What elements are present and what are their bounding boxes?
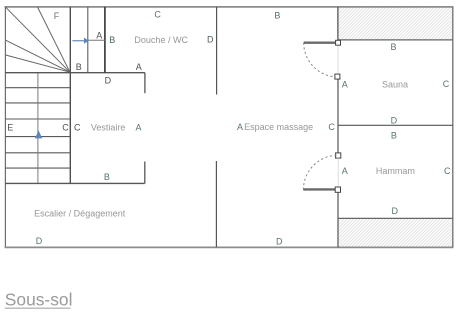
svg-text:C: C <box>74 123 81 133</box>
winder tread diagonal 1 <box>6 7 70 72</box>
svg-text:D: D <box>276 237 283 247</box>
svg-text:D: D <box>36 236 43 246</box>
Vestiaire wall stub <box>144 162 146 184</box>
corridor wall <box>87 7 89 73</box>
stair tread line 4 <box>5 136 70 138</box>
stair tread line 1 <box>5 87 70 89</box>
svg-text:D: D <box>391 206 398 216</box>
stair up arrow <box>35 131 42 139</box>
svg-text:C: C <box>328 122 335 132</box>
svg-text:D: D <box>105 75 112 85</box>
svg-text:B: B <box>274 11 280 21</box>
title underline <box>5 307 71 309</box>
stair tread line 3 <box>5 118 70 120</box>
svg-text:C: C <box>154 10 161 20</box>
svg-text:B: B <box>390 42 396 52</box>
sauna hammam divider wall <box>338 124 453 126</box>
wall under Douche (top tread) <box>5 72 145 74</box>
sauna door hinge post <box>336 40 341 45</box>
stair tread line 2 <box>5 102 70 104</box>
top hatched wall zone <box>338 8 453 40</box>
massage left wall top segment <box>216 7 218 95</box>
svg-text:Hammam: Hammam <box>376 166 415 176</box>
bottom hatched wall zone <box>338 219 453 247</box>
stair right wall <box>69 7 71 184</box>
svg-text:E: E <box>7 123 13 133</box>
svg-text:A: A <box>342 166 348 176</box>
svg-text:C: C <box>443 79 450 89</box>
svg-text:B: B <box>109 35 115 45</box>
plan right border <box>452 7 454 247</box>
sauna top wall <box>338 39 453 41</box>
svg-text:B: B <box>391 130 397 140</box>
massage/sauna wall middle segment <box>337 79 339 153</box>
sauna door frame post <box>335 74 340 79</box>
massage left wall bottom segment <box>215 161 217 247</box>
svg-text:Sauna: Sauna <box>382 80 408 90</box>
plan left border <box>4 7 6 247</box>
sauna door swing arc <box>304 43 338 77</box>
svg-text:C: C <box>444 166 451 176</box>
svg-text:Sous-sol: Sous-sol <box>5 289 73 309</box>
winder tread diagonal 2 <box>38 7 70 72</box>
sauna door leaf <box>304 42 336 44</box>
door threshold <box>88 39 105 41</box>
winder tread diagonal 4 <box>6 55 70 72</box>
svg-text:Escalier / Dégagement: Escalier / Dégagement <box>34 208 126 218</box>
svg-text:Espace massage: Espace massage <box>244 122 313 132</box>
entry direction arrow stem <box>72 40 84 42</box>
sauna door opening line <box>337 45 339 74</box>
hammam door hinge post <box>335 187 340 192</box>
svg-text:B: B <box>76 62 82 72</box>
svg-text:D: D <box>207 35 214 45</box>
svg-text:A: A <box>136 62 142 72</box>
stair walk line <box>37 73 39 184</box>
hammam door leaf <box>303 188 335 190</box>
plan top border <box>5 6 454 8</box>
hammam bottom wall <box>337 217 452 219</box>
Douche wall stub <box>144 73 146 94</box>
plan bottom border <box>5 246 454 248</box>
svg-text:A: A <box>135 123 141 133</box>
svg-text:Douche / WC: Douche / WC <box>134 35 188 45</box>
winder tread diagonal 3 <box>6 40 70 72</box>
svg-text:Vestiaire: Vestiaire <box>91 123 126 133</box>
hammam door swing arc <box>303 155 338 190</box>
svg-text:C: C <box>62 123 69 133</box>
hammam door opening line <box>337 158 339 187</box>
entry direction arrow head <box>84 38 89 44</box>
svg-text:B: B <box>104 172 110 182</box>
stair tread line 5 <box>5 152 70 154</box>
Douche left wall <box>104 7 106 73</box>
svg-text:A: A <box>342 80 348 90</box>
stair bottom wall <box>5 182 145 184</box>
svg-text:F: F <box>54 11 60 21</box>
stair tread line 6 <box>5 167 70 169</box>
svg-text:A: A <box>237 122 243 132</box>
svg-text:D: D <box>391 115 398 125</box>
hammam door frame post <box>336 153 341 158</box>
svg-text:A: A <box>96 30 102 40</box>
hammam wall below door <box>337 192 339 247</box>
sauna hatch left wall <box>337 7 339 40</box>
